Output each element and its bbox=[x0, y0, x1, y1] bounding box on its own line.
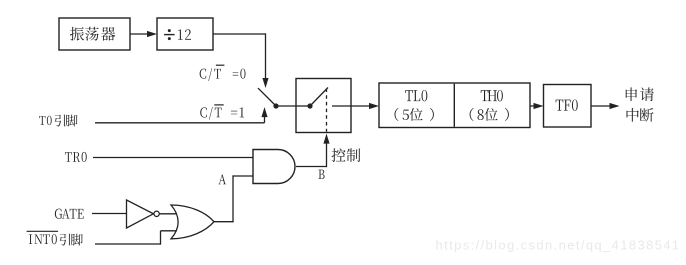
svg-text:https://blog.csdn.net/qq_41838: https://blog.csdn.net/qq_41838541 bbox=[436, 238, 681, 253]
